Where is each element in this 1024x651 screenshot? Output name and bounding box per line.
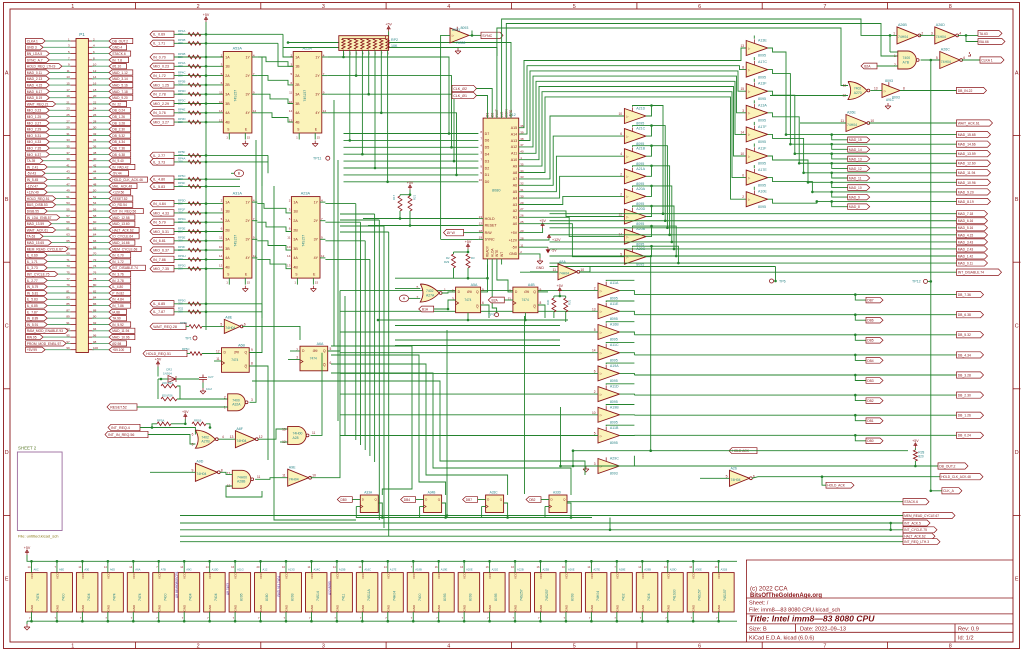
svg-text:IL_4.80: IL_4.80 [153,178,165,182]
svg-text:MIO_7.35: MIO_7.35 [153,267,169,271]
wire staircase feed [340,219,379,221]
wire R30 bottom [553,312,555,318]
wire RP1B down [206,424,210,428]
wire P1 pin 16 [92,84,109,86]
junction [205,311,208,314]
wire A11G VCC stub [234,561,236,572]
svg-text:MAD_14: MAD_14 [849,148,862,152]
wire address A4 staircase [519,176,625,198]
svg-text:220: 220 [178,41,183,45]
wire data bus D3 [344,160,479,162]
svg-text:IL_0.69: IL_0.69 [153,33,165,37]
wire address bundle [550,248,675,250]
wire P1 pin 87 [47,311,70,313]
junction [830,172,833,175]
wire A14C GND stub [310,612,312,621]
svg-text:HOLD: HOLD [485,217,495,221]
svg-text:16: 16 [689,565,692,569]
wire P1 pin 28 [92,122,109,124]
inverter A9D 74H04 [195,463,217,481]
svg-text:6: 6 [482,301,484,305]
power unit A18B 7400 [407,573,429,612]
label WAIT_REQ.28 [150,323,186,329]
svg-text:A28E: A28E [619,567,626,571]
label MAD_13.59 [957,151,991,157]
hier label MIO_5.31 [150,228,174,234]
svg-text:R21: R21 [413,194,417,200]
wire A20E VCC stub [463,561,465,572]
wire A27A input1 [395,287,420,289]
svg-text:File: untitled.kicad_sch: File: untitled.kicad_sch [18,534,58,539]
wire elbow to small label MAD_8 [832,201,848,206]
wire A31A 2Y output stub [252,220,257,222]
svg-text:22K R24: 22K R24 [162,381,173,385]
svg-text:TA.39: TA.39 [27,159,36,163]
svg-text:5: 5 [482,288,484,292]
svg-text:2B: 2B [225,83,230,87]
svg-text:7474: 7474 [310,357,317,361]
wire P1 pin 82 [92,292,109,294]
svg-text:GND: GND [335,604,339,612]
hier label MAD_12.58 [109,215,135,220]
wire A20B enable loop [633,226,652,227]
wire P1 pin 99 [45,349,70,351]
label DB3 [866,378,883,384]
svg-text:A11D: A11D [610,385,619,389]
svg-text:VCC: VCC [30,572,34,579]
junction [830,133,833,136]
svg-text:2: 2 [594,390,596,394]
wire P1 pin 54 [92,204,109,206]
svg-text:B2A: B2A [492,298,499,302]
hier label MAD_2.13 [26,76,50,81]
wire A20A enable loop [633,186,652,187]
wire A23B GND stub [540,612,542,621]
svg-text:R3: R3 [471,256,475,260]
svg-text:A10D: A10D [212,567,219,571]
wire STACK row [567,501,903,503]
wire WAIT_ACK out [869,122,957,124]
P1 pin 63 / pin 64 row [71,235,77,237]
wire A19A input [340,372,598,374]
svg-text:A26: A26 [731,467,737,471]
svg-text:VCC: VCC [361,572,365,579]
resistor RP5G [188,302,201,306]
wire A13G GND stub [285,612,287,621]
svg-text:13: 13 [874,87,878,91]
wire mid vertical 4 [609,518,611,530]
hier label +12V.50 [109,190,131,195]
wire P1 pin 2 [92,40,109,42]
svg-text:13: 13 [219,118,223,122]
svg-text:GND: GND [157,604,161,612]
hier label HOLD_CLK_ACK.46 [109,177,148,182]
svg-text:MIO_5.31: MIO_5.31 [153,230,169,234]
wire P1 pin 60 [92,223,109,225]
svg-text:IL_6.85: IL_6.85 [153,302,165,306]
wire INTE long row [288,43,511,114]
svg-text:R29: R29 [444,260,450,264]
svg-text:A10E: A10E [758,190,767,194]
svg-text:+5V: +5V [407,181,414,185]
svg-text:A15: A15 [511,126,517,130]
wire B1A to A5A clock [434,300,456,309]
label HOLD_REQ.51 [143,350,187,356]
P1 pin 35 / pin 36 row [71,147,77,149]
svg-text:VCC: VCC [641,572,645,579]
svg-text:(c) 2022 CCA: (c) 2022 CCA [750,586,788,593]
resistor R26 820 [161,397,177,401]
svg-text:2: 2 [620,192,622,196]
wire P1 pin 78 [92,279,109,281]
svg-text:14: 14 [206,565,209,569]
wire A17E VCC stub [387,561,389,572]
svg-text:2A: 2A [295,74,300,78]
svg-text:11: 11 [257,475,261,479]
svg-text:IN_7.8: IN_7.8 [112,58,122,62]
hier label MAD_3.14 [109,76,133,81]
label CLK_O2 [452,85,477,91]
wire A11A input [340,290,598,292]
P1 pin 69 / pin 70 row [71,254,77,256]
wire RP2 pin 11 vertical [355,50,357,75]
resistor RP5D [188,202,201,206]
hier label MAD_7.18 [109,89,133,94]
test point TP12 [924,279,928,283]
P1 pin 37 / pin 38 row [71,153,77,155]
svg-text:DB7: DB7 [867,299,874,303]
svg-text:DB_7.36: DB_7.36 [958,293,971,297]
wire IL_2.77 row [174,154,268,156]
svg-text:MAD_7.18: MAD_7.18 [112,90,128,94]
wire MAD row MAD_7.18 [663,213,957,215]
power unit A29B 7404 [636,573,658,612]
wire A53A output to A22A input [257,57,293,66]
wire A31B VCC stub [718,561,720,572]
power -5V at 8080 [519,246,548,248]
svg-text:1B: 1B [225,65,230,69]
svg-text:RP5A: RP5A [157,418,164,422]
power unit A23B 74S257 [535,573,557,612]
wire MIO_6.37 row [174,249,223,251]
svg-text:DB_5.32: DB_5.32 [112,134,125,138]
svg-text:13: 13 [740,44,744,48]
svg-text:MAD_0.11: MAD_0.11 [958,261,973,265]
wire A13A enable [753,100,755,103]
wire row y278 continues [395,277,454,279]
wire P1 pin 6 [92,53,109,55]
svg-text:A6A: A6A [135,567,140,571]
buffer A21B 8095 [624,149,646,164]
hier label IN_3.76 [109,272,131,277]
wire address A10 staircase [519,87,747,160]
svg-text:A19E: A19E [441,567,448,571]
svg-text:GND: GND [361,604,365,612]
label STACK.6 [903,499,929,505]
wire A18B GND stub [412,612,414,621]
svg-text:4A: 4A [295,111,300,115]
wire address A13 staircase [519,71,747,141]
svg-text:A7B: A7B [903,60,910,64]
wire A23A 3Y output stub [320,238,325,240]
hier label IL_4.80 [150,176,174,182]
wire A8E output [242,326,300,340]
wire P1 pin 72 [92,261,109,263]
svg-text:SHEET 2: SHEET 2 [18,446,37,451]
svg-text:12: 12 [259,435,263,439]
wire A20D output [646,206,660,217]
power +5V READY pullups [466,244,469,249]
svg-text:PROM_MOD_ENBL.97: PROM_MOD_ENBL.97 [27,342,62,346]
label HOLD_ACK small [826,482,854,488]
junction [205,212,208,215]
svg-text:MAD_15: MAD_15 [849,138,862,142]
svg-text:IL_7.87: IL_7.87 [153,310,165,314]
gate A32A 7400 NAND [228,394,246,411]
wire READY pin down [487,265,489,279]
wire hold inverter input [700,477,730,479]
svg-text:8093: 8093 [610,472,618,476]
hier label IN_9.40 [109,158,131,163]
svg-text:Size: B: Size: B [749,626,767,632]
junction [205,240,208,243]
wire staircase vertical [364,241,366,450]
wire HOLD ACK drop [572,451,574,466]
svg-text:3Y: 3Y [314,238,319,242]
resistor RP4A [188,33,201,37]
wire staircase vertical [383,226,385,528]
svg-text:RESET.52: RESET.52 [110,405,127,409]
svg-text:A16C: A16C [364,567,371,571]
wire P1 pin 20 [92,97,109,99]
wire DB_5 row [634,334,956,336]
junction [374,167,377,170]
label DB5 [866,338,883,344]
wire A6C VCC stub [31,561,33,572]
resistor RP4C [188,74,201,78]
svg-text:B2A: B2A [864,64,871,68]
test point TP1 [193,336,197,340]
wire R24 [157,379,159,399]
label DB_7.36 [957,292,984,298]
wire left vertical 1 [255,140,257,310]
svg-text:A11C: A11C [610,343,619,347]
svg-text:GND 3: GND 3 [27,46,37,50]
svg-text:TA.63: TA.63 [979,32,988,36]
svg-text:DB4: DB4 [404,498,410,502]
P1 pin 15 / pin 16 row [71,84,77,86]
wire top bundle WR [502,19,897,113]
svg-text:6: 6 [742,174,744,178]
wire P1 pin 88 [92,311,109,313]
resistor R17 [398,196,402,211]
P1 pin 55 / pin 56 row [71,210,77,212]
svg-text:MAD_14.66: MAD_14.66 [958,143,976,147]
hier label -5V.43 [26,171,46,176]
label I5A.66 [978,39,1005,45]
wire IL_6.85 row [174,303,262,305]
svg-text:7400: 7400 [61,593,65,601]
P1 pin 7 / pin 8 row [71,59,77,61]
wire R17 bottom to bus [399,211,401,219]
svg-text:HOLD_CLK_ACK.46: HOLD_CLK_ACK.46 [112,178,143,182]
wire P1 pin 94 [92,330,109,332]
svg-text:MIO_1.25: MIO_1.25 [153,83,169,87]
hier label HOLD_REQ.51 [26,196,56,201]
svg-text:+5V: +5V [24,546,31,550]
hier label IN_4.84 [109,297,131,302]
svg-text:A26B: A26B [898,23,907,27]
svg-text:10: 10 [312,474,316,478]
label HOLD_CLK_ACK.48 [940,474,983,480]
svg-text:VCC: VCC [183,572,187,579]
wire NAND input from TA wire [890,51,898,53]
wire 8080 RESET stub [478,224,483,226]
buffer A20B 8095 [624,229,646,244]
wire address A15 staircase [519,48,747,128]
wire P1 pin 34 [92,141,109,143]
resistor RP3A [188,65,201,69]
P1 pin 89 / pin 90 row [71,317,77,319]
wire DB_IN out [900,90,957,92]
svg-text:74H04: 74H04 [596,591,600,601]
svg-text:8095: 8095 [758,97,766,101]
svg-text:A18B: A18B [415,567,422,571]
svg-text:74H04: 74H04 [236,439,246,443]
hier label IL_2.77 [26,278,48,283]
svg-text:HOLD_REQ.51: HOLD_REQ.51 [146,352,171,356]
label INT_ACK.5 [903,520,930,526]
svg-text:WAIT_ACK.61: WAIT_ACK.61 [27,228,48,232]
wire A22B GND stub [514,612,516,621]
wire MAD row MAD_0.11 [678,262,956,264]
svg-text:GND: GND [590,604,594,612]
svg-text:A21A: A21A [636,167,645,171]
svg-text:10: 10 [870,119,874,123]
hier label IN_7.86 [150,256,174,262]
wire A20D enable loop [633,206,652,207]
svg-text:IL_2.77: IL_2.77 [153,154,165,158]
svg-text:A11E: A11E [610,302,619,306]
wire A19A enable loop [606,363,634,364]
svg-text:74S257: 74S257 [545,589,549,601]
wire address A8 staircase [519,97,747,199]
wire A22A enable pin stub [314,133,316,140]
svg-text:A13G: A13G [288,567,295,571]
wire NAND out to inverter [921,59,940,61]
svg-text:+5V: +5V [912,439,919,443]
svg-text:A26E: A26E [847,111,856,115]
junction [205,230,208,233]
power unit A26E 8093 [560,573,582,612]
svg-text:4: 4 [222,435,224,439]
svg-text:74H04: 74H04 [731,478,741,482]
svg-text:TP1: TP1 [185,337,192,341]
svg-text:MAD_2.13: MAD_2.13 [27,77,43,81]
svg-text:1̅P̅R̅: 1̅P̅R̅ [312,349,317,353]
P1 pin 73 / pin 74 row [71,267,77,269]
buffer A26A 8093 SYNC [450,28,469,43]
svg-text:TP6: TP6 [779,279,786,283]
svg-text:D0: D0 [485,180,490,184]
hier label TA.63 [26,234,44,239]
wire IN_7.86 row [174,258,223,260]
svg-text:8093: 8093 [469,593,473,601]
svg-text:13: 13 [282,428,286,432]
power +5V A4B pullups [558,288,561,293]
svg-text:STACK.6: STACK.6 [112,52,126,56]
svg-text:A26E: A26E [568,567,575,571]
resistor RP5F [188,154,201,158]
wire P1 pin 90 [92,317,109,319]
label B1A [419,306,434,312]
ground below A23A [310,286,316,292]
svg-text:A6C: A6C [34,567,39,571]
svg-text:MIO_4.33: MIO_4.33 [27,140,42,144]
P1 pin 91 / pin 92 row [71,324,77,326]
hier label MAD_14.66 [109,240,135,245]
svg-text:A9E: A9E [289,465,296,469]
wire P1 pin 51 [56,198,71,200]
wire A13F enable [753,79,755,82]
wire 8080 top pin WR stub [501,113,503,118]
hier label IL_7.87 [150,309,174,315]
svg-text:3: 3 [322,644,325,650]
wire MAD row MAD_12.60 [799,162,956,164]
svg-text:MAD_11: MAD_11 [849,176,862,180]
power unit A27E 74H04 [585,573,607,612]
svg-text:Q: Q [476,290,479,294]
svg-text:A17F: A17F [758,125,767,129]
P1 pin 41 / pin 42 row [71,166,77,168]
svg-text:5: 5 [594,432,596,436]
svg-text:6: 6 [192,433,194,437]
wire DB_1 row [634,414,956,416]
hier label IA.88 [109,309,127,314]
svg-text:A33C: A33C [490,491,499,495]
P1 pin 25 / pin 26 row [71,116,77,118]
label MAD_13 [848,156,870,162]
wire spare bundle line [550,266,776,268]
wire RP2 pin 10 vertical [349,50,351,140]
wire R/W [464,232,479,234]
svg-text:11: 11 [840,119,844,123]
svg-text:I5A.66: I5A.66 [979,40,989,44]
svg-text:D: D [1015,450,1019,456]
hier label IN_5.92 [109,322,131,327]
P1 pin 97 / pin 98 row [71,342,77,344]
gate A28A 7400 NAND [288,426,307,444]
wire P1 pin 68 [92,248,109,250]
svg-text:A91C: A91C [886,98,895,102]
svg-text:2: 2 [197,644,200,650]
wire A29B VCC stub [641,561,643,572]
wire A26E VCC stub [565,561,567,572]
wire MIO_1.25 row [174,84,223,86]
svg-text:A11B: A11B [610,426,619,430]
ground below A53A [242,141,248,147]
wire A29C output [620,456,635,466]
wire A22B VCC stub [514,561,516,572]
svg-text:VCC: VCC [463,572,467,579]
wire MIO_7.35 row [174,268,223,270]
power unit A6C 7474 [26,573,48,612]
wire P1 pin 39 [43,160,71,162]
svg-text:13: 13 [219,264,223,268]
wire A6E VCC stub [56,561,58,572]
svg-text:INT_DISABLE.74: INT_DISABLE.74 [958,271,984,275]
label DB2 [866,398,883,404]
